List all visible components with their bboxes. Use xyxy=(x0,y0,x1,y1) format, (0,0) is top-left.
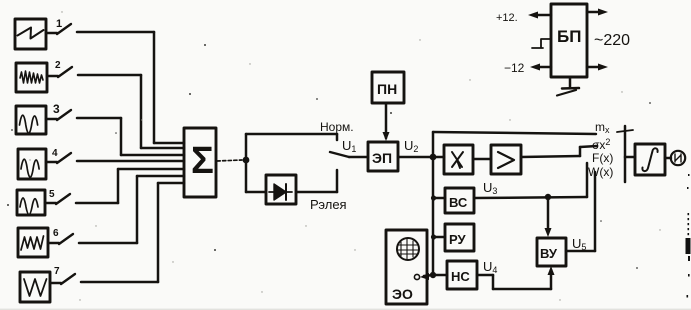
svg-text:РУ: РУ xyxy=(449,232,466,247)
wire to Norm contact xyxy=(246,134,337,160)
svg-text:ЭО: ЭО xyxy=(392,286,413,302)
bottom scan shade xyxy=(0,309,691,310)
wire stub to X xyxy=(433,156,444,159)
wire U3 from VS to F(x) contact xyxy=(474,163,587,198)
svg-text:~220: ~220 xyxy=(594,32,630,49)
integrator block xyxy=(635,144,665,175)
arrow into oscilloscope input xyxy=(420,273,433,280)
svg-text:БП: БП xyxy=(557,27,581,46)
generator G2 box (noise) xyxy=(16,63,47,92)
wire from switch6 to summator xyxy=(79,176,184,243)
svg-text:4: 4 xyxy=(52,148,58,159)
wire selector to integrator xyxy=(625,156,635,159)
wire stub to RU xyxy=(433,236,445,239)
svg-text:2: 2 xyxy=(55,60,61,71)
node tee to oscilloscope xyxy=(430,272,436,278)
generator G6 box (sine) xyxy=(18,228,48,257)
wire stub to VS xyxy=(433,197,445,200)
VS block xyxy=(445,188,474,213)
wire to NS xyxy=(433,274,447,277)
svg-text:ВС: ВС xyxy=(449,195,468,210)
generator G3 box (sine) xyxy=(16,106,46,134)
wire to Rayleigh branch xyxy=(246,160,266,192)
220V input arrow top xyxy=(587,9,608,16)
wire U5 from VU to W(x) contact xyxy=(566,172,595,251)
wire X to comparator xyxy=(473,158,491,161)
wire from switch4 to summator xyxy=(77,160,184,163)
power supply BP block xyxy=(551,4,587,77)
svg-text:Рэлея: Рэлея xyxy=(310,197,347,212)
NS block xyxy=(447,261,477,289)
node (junction dot) xyxy=(243,157,250,164)
switch 2 xyxy=(47,60,72,77)
wire summator output xyxy=(217,160,242,161)
diode limiter box (Rayleigh) xyxy=(266,175,296,204)
switch 4 xyxy=(46,148,71,163)
switch U1 blade xyxy=(330,152,349,157)
wire from switch1 to summator xyxy=(77,32,184,143)
wire diode box to switch contact xyxy=(296,170,337,192)
+12 output arrow xyxy=(528,12,551,19)
svg-text:Норм.: Норм. xyxy=(320,120,354,134)
wire PN to EP with arrow xyxy=(383,103,390,141)
svg-text:7: 7 xyxy=(54,266,60,277)
summator block xyxy=(184,128,216,197)
VU block xyxy=(537,238,566,266)
wire EP output U2 xyxy=(398,156,431,159)
svg-text:−12: −12 xyxy=(504,61,525,75)
-12 output arrow xyxy=(530,64,551,71)
generator G1 box (sawtooth) xyxy=(15,19,46,49)
svg-text:5: 5 xyxy=(49,189,55,200)
switch 7 xyxy=(50,266,75,284)
PN block xyxy=(372,72,404,103)
switch 6 xyxy=(48,228,73,244)
node U3 junction xyxy=(545,194,551,200)
wire from switch3 to summator xyxy=(77,118,184,155)
svg-text:W(x): W(x) xyxy=(588,165,613,179)
scan edge artifacts right xyxy=(686,174,691,298)
svg-text:ЭП: ЭП xyxy=(372,150,392,166)
switch 5 xyxy=(45,189,70,204)
wire comparator to sigma-x2 contact xyxy=(521,146,597,157)
svg-text:F(x): F(x) xyxy=(592,151,613,165)
220V input arrow bottom xyxy=(587,64,608,71)
chassis stub xyxy=(532,39,551,48)
switch 3 xyxy=(46,102,71,120)
wire U4 from NS to VU bottom with arrow xyxy=(477,266,555,289)
switch 1 xyxy=(46,24,71,34)
wire from switch7 to summator xyxy=(81,183,184,282)
EP block xyxy=(368,142,398,171)
svg-text:НС: НС xyxy=(451,269,470,284)
svg-text:3: 3 xyxy=(53,102,60,116)
svg-text:6: 6 xyxy=(53,228,59,239)
generator G4 box (sine) xyxy=(18,149,46,179)
svg-text:+12.: +12. xyxy=(496,12,518,24)
ground of BP xyxy=(557,77,579,96)
svg-text:ВУ: ВУ xyxy=(540,246,558,261)
generator G7 box (triangle) xyxy=(20,272,50,302)
wire U3 down to VU with arrow xyxy=(545,197,552,237)
scan specks xyxy=(7,44,651,269)
svg-text:1: 1 xyxy=(56,18,62,30)
wire riser to mx line xyxy=(433,132,596,157)
node U2 junction xyxy=(430,154,437,161)
wire down the distribution bus xyxy=(432,157,435,275)
wire from switch2 to summator xyxy=(78,75,184,148)
selector switch bar xyxy=(617,126,633,182)
wire to EP xyxy=(349,156,368,159)
generator G5 box (sine) xyxy=(17,190,45,215)
svg-text:Σ: Σ xyxy=(191,140,214,182)
RU block xyxy=(445,224,474,251)
svg-text:ПН: ПН xyxy=(377,81,397,97)
wire from switch5 to summator xyxy=(76,169,184,203)
oscilloscope block xyxy=(386,230,427,304)
comparator block xyxy=(491,145,521,174)
indicator xyxy=(671,151,685,165)
multiplier X block xyxy=(444,145,473,174)
wire to indicator xyxy=(665,157,671,160)
